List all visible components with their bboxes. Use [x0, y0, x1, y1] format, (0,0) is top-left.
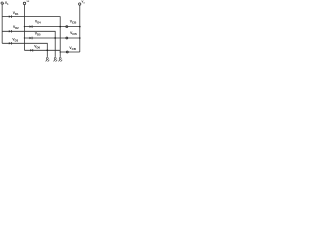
diode D2	[30, 25, 33, 28]
junction node A-D	[59, 26, 61, 28]
junction node bus2-D	[24, 26, 25, 27]
diode D4	[30, 37, 33, 40]
junction node bus2-E	[24, 37, 25, 38]
node circle output 3	[66, 51, 68, 53]
svg-text:VD4: VD4	[35, 20, 41, 25]
svg-text:VD2: VD2	[13, 25, 19, 30]
svg-text:V1: V1	[5, 1, 9, 6]
junction node B-E	[54, 37, 56, 39]
svg-text:VD5: VD5	[35, 31, 41, 36]
junction node G start	[60, 51, 61, 52]
wire row A	[2, 17, 60, 27]
ground 1	[46, 57, 50, 61]
junction node C-F	[46, 49, 48, 51]
terminal V2	[23, 2, 25, 4]
junction node E-right bus	[79, 37, 81, 39]
junction node D-right bus	[79, 26, 81, 28]
wire pulldown stem 2	[54, 38, 56, 57]
diode D5	[9, 42, 12, 45]
wire row B	[2, 31, 55, 38]
svg-text:V2: V2	[27, 1, 30, 3]
wire pulldown stem 3	[59, 27, 61, 57]
svg-text:V3: V3	[82, 0, 86, 4]
wire row E output 2	[24, 37, 79, 39]
ground 3	[59, 57, 63, 61]
svg-text:VD3: VD3	[12, 38, 18, 43]
svg-text:VCB: VCB	[69, 46, 76, 51]
svg-text:VCB: VCB	[70, 31, 77, 36]
svg-text:VD1: VD1	[13, 11, 19, 16]
svg-text:VCB: VCB	[70, 20, 77, 25]
wire row F	[24, 49, 60, 51]
diode D1	[9, 15, 12, 18]
wire row D output 1	[24, 26, 79, 28]
diode D3	[9, 30, 12, 33]
wire row C	[2, 43, 47, 50]
node circle output 2	[66, 37, 68, 39]
diode D6	[30, 49, 33, 52]
wire pulldown stem 1	[46, 50, 48, 57]
svg-text:VD6: VD6	[34, 44, 40, 49]
wire row G output 3	[60, 51, 80, 53]
terminal V3	[79, 3, 81, 5]
node circle output 1	[66, 26, 68, 28]
wire right bus	[79, 5, 81, 52]
wire left bus	[1, 4, 3, 43]
ground 2	[54, 57, 58, 61]
terminal V1	[1, 2, 3, 4]
wire middle bus	[23, 5, 25, 51]
